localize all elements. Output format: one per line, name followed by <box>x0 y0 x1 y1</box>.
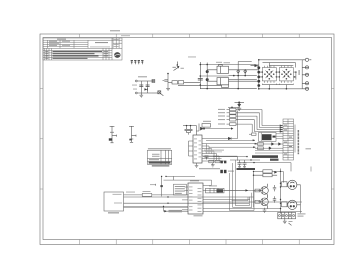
table dark row <box>149 162 171 164</box>
IC U1 pin labels <box>194 139 201 160</box>
junction VT1 <box>177 64 179 66</box>
resistor R5 <box>227 123 253 133</box>
wire bridge mids <box>259 72 296 89</box>
stamp dark block <box>262 134 276 140</box>
resistor Rb2 <box>255 200 260 203</box>
parameter table <box>147 150 171 164</box>
wire from D5 <box>231 111 238 139</box>
capacitor C9 <box>273 185 276 191</box>
wire motor right <box>297 185 301 213</box>
wire W1b <box>152 194 189 196</box>
junction dot top row <box>231 107 233 109</box>
diode D2 <box>206 70 209 73</box>
capacitor C6 <box>185 127 189 132</box>
caps to ground pair <box>238 160 247 168</box>
wire R8 right corner <box>277 171 283 182</box>
junction dots right bus <box>280 171 281 210</box>
aux box left of U4 <box>174 184 187 195</box>
resistor R3 <box>227 115 284 130</box>
label Y1 <box>138 76 147 77</box>
connector pin XP5 <box>302 87 308 90</box>
wire K3 right <box>224 189 248 191</box>
net flag E4 <box>141 60 143 64</box>
diode D3 <box>206 78 209 81</box>
label XP <box>299 70 300 75</box>
diode D6 <box>164 210 167 212</box>
hazy label row <box>204 150 224 151</box>
capacitor C2 <box>146 85 150 87</box>
junction dots chain <box>200 64 209 90</box>
dark text strip 2 <box>270 159 279 161</box>
wire top bus <box>200 64 256 66</box>
ground Q cluster <box>263 208 267 212</box>
wire IC to table A <box>206 140 255 141</box>
diode D5 <box>228 137 231 140</box>
diode D8 <box>274 171 277 174</box>
wire L-route right <box>213 156 237 161</box>
dark glyph pair <box>220 170 226 173</box>
wire top row <box>228 106 239 108</box>
IC U1 <box>193 135 202 163</box>
optocoupler bridge U2 <box>262 66 276 83</box>
connector pin XP1 <box>302 58 311 61</box>
stamp box outline <box>259 133 277 142</box>
crystal circuit wires <box>137 81 153 93</box>
wire VT1 base <box>167 74 169 89</box>
junction net stem <box>165 176 166 177</box>
border frame inner <box>43 38 332 240</box>
resistor R7 <box>215 160 220 163</box>
component row under stamp <box>255 143 283 150</box>
header table XS1 <box>283 119 294 160</box>
wire chain left <box>168 62 222 89</box>
label chain top <box>188 56 196 59</box>
wire rectifier left bus <box>258 60 260 89</box>
terminal X1 <box>152 80 155 83</box>
transistor Q3 <box>258 195 268 208</box>
wire IC to table B <box>207 143 258 144</box>
IC U4 right wires <box>164 180 303 212</box>
label U4 bottom <box>194 215 203 216</box>
resistor Rb1 <box>255 189 260 192</box>
label R5 <box>218 124 225 125</box>
supply rail V2 <box>129 126 136 142</box>
label K1 <box>224 61 231 64</box>
small cluster left of table <box>249 133 256 135</box>
label in box w3 <box>114 202 122 205</box>
wire loop outer <box>230 173 255 211</box>
wire loop inner <box>236 160 250 206</box>
diode VD2 <box>237 70 240 74</box>
diode VD9 <box>257 84 260 87</box>
wire glyph row <box>199 168 220 170</box>
wire bottom bus <box>200 88 256 90</box>
wire W1 <box>124 194 143 196</box>
dark glyph pair B <box>221 161 227 164</box>
resistor R9 <box>254 174 278 177</box>
ground IC <box>211 163 215 167</box>
driver box DR2 <box>282 202 288 207</box>
motor M1 <box>287 180 297 189</box>
capacitor C10 <box>273 196 276 202</box>
filter FB1 <box>142 194 152 197</box>
capacitor C1 <box>139 85 143 87</box>
label U4 top <box>190 180 199 181</box>
IC U4 left pin stubs <box>182 187 188 210</box>
wire table feeds <box>255 134 283 153</box>
label in box w1 <box>113 193 122 196</box>
transistor Q2 <box>258 184 268 197</box>
table footer text <box>152 165 170 166</box>
resistor R10 <box>172 81 178 84</box>
connector pin XP3 <box>302 73 308 76</box>
diode VD3 <box>244 70 247 74</box>
bottom connector XS2 <box>278 212 296 218</box>
relay K1 <box>207 64 259 73</box>
label right rail <box>306 148 312 149</box>
diode VD4 <box>255 64 258 67</box>
label Q1 <box>203 121 211 122</box>
terminal X2 <box>152 91 163 96</box>
stub left <box>150 184 156 186</box>
net flag E2 <box>134 60 136 64</box>
transistor VT1 <box>173 62 180 71</box>
wire net stem <box>162 176 195 196</box>
capacitor C8 <box>205 156 209 160</box>
relay bar K3 dark cell <box>217 189 224 192</box>
wire W4b <box>124 207 189 209</box>
wire rectifier top <box>259 59 302 61</box>
junction dots R8 <box>253 171 254 176</box>
vertical net label <box>298 130 300 154</box>
IC U1 left pins <box>189 141 194 156</box>
wire W3 <box>124 202 250 204</box>
motor M2 <box>287 200 297 209</box>
diode D1 <box>144 88 147 90</box>
blob on stem <box>160 185 162 187</box>
ground XS2 <box>283 219 293 226</box>
ground VT1 <box>166 88 170 90</box>
junction VT1b <box>167 73 169 75</box>
wire loop mid <box>233 163 252 208</box>
title block frame <box>43 38 122 60</box>
transistor Q1 <box>196 124 232 132</box>
diode VD5 <box>257 66 260 69</box>
label box A1 <box>108 212 119 213</box>
label R2 <box>218 112 225 113</box>
arrow mark <box>231 127 233 129</box>
aux box texture <box>175 186 185 194</box>
wire bus B <box>230 159 260 161</box>
wire right bus v <box>280 169 282 214</box>
ground crystal <box>140 93 144 98</box>
label FB1 <box>143 190 151 193</box>
wire rectifier bottom <box>259 88 302 90</box>
capacitor C11 <box>163 80 169 81</box>
diode VD7 <box>257 76 260 79</box>
label XS2 <box>298 213 306 214</box>
resistor R2 <box>227 112 284 129</box>
ground U1 below <box>195 163 199 168</box>
wire diode column <box>206 63 208 89</box>
label glyph pair <box>228 171 234 172</box>
wire mid left <box>200 75 228 77</box>
label wire1 <box>126 191 135 194</box>
connector pin XP2 <box>302 66 308 69</box>
header table cell text <box>284 125 292 155</box>
IC U1 right vertical drops <box>207 144 220 161</box>
dark text bar bottom <box>237 168 256 170</box>
wire stub loop <box>232 197 248 201</box>
pad P2 <box>135 92 137 94</box>
relay bar K3 <box>206 188 225 193</box>
wire bus A <box>203 156 247 158</box>
box A1 <box>104 192 124 211</box>
resistor R6 <box>209 160 214 163</box>
diode D4 to ground <box>235 102 245 111</box>
capacitor C4 <box>109 138 112 140</box>
IC U4 <box>188 183 203 214</box>
label R1 <box>218 109 225 110</box>
label R4 <box>218 119 225 120</box>
junction dots caps <box>186 125 191 126</box>
resistor R8 <box>254 170 278 173</box>
diode VD8 <box>257 80 260 83</box>
diode D7 <box>246 189 249 191</box>
dark text strip <box>252 155 278 158</box>
driver box DR1 <box>282 182 288 187</box>
wire IC to table C <box>209 147 256 148</box>
label K3 <box>209 185 217 186</box>
wire rectifier top2 <box>263 63 296 68</box>
wire W5 drop <box>164 206 189 211</box>
capacitor C3 <box>198 78 203 80</box>
wire vert 253 <box>253 171 255 207</box>
label R3 <box>218 116 225 117</box>
junction dots bridge <box>258 59 297 90</box>
table cell text <box>149 154 160 160</box>
resistor R1 <box>227 108 284 126</box>
border frame outer <box>40 34 334 245</box>
capacitor C7 <box>189 127 193 132</box>
connector pin XP4 <box>302 82 308 85</box>
title block logo <box>114 52 120 58</box>
capacitor C5 <box>129 139 132 141</box>
wire bus C <box>237 163 291 172</box>
net flag E3 <box>138 60 140 64</box>
diode VD6 <box>257 71 260 74</box>
table header text <box>148 148 171 149</box>
wire right rail <box>294 125 296 153</box>
wire caps top <box>183 126 197 135</box>
optocoupler bridge U3 <box>279 66 293 83</box>
title block text bars <box>45 39 118 59</box>
pad P1 <box>135 80 137 82</box>
junction dots W <box>163 196 169 207</box>
supply rail V1 <box>110 126 117 143</box>
wire W2 <box>124 196 254 198</box>
border zone ticks <box>40 34 334 245</box>
IC U4 pin labels <box>189 187 202 212</box>
wire connector bus <box>301 60 303 89</box>
net flag E1 <box>131 60 133 64</box>
junction dots mid <box>233 75 246 90</box>
label osc <box>132 84 137 87</box>
wire mid chain <box>229 62 257 89</box>
resistor R4 <box>227 118 284 132</box>
IC U1 right pins <box>202 139 228 162</box>
wire W4 <box>124 205 189 207</box>
junction dots bus <box>246 156 254 163</box>
label VT1 <box>181 67 184 70</box>
relay K2 <box>207 78 259 88</box>
resistor R11 <box>178 81 184 84</box>
ghost text above frame <box>110 30 130 36</box>
label D6 <box>169 210 183 212</box>
